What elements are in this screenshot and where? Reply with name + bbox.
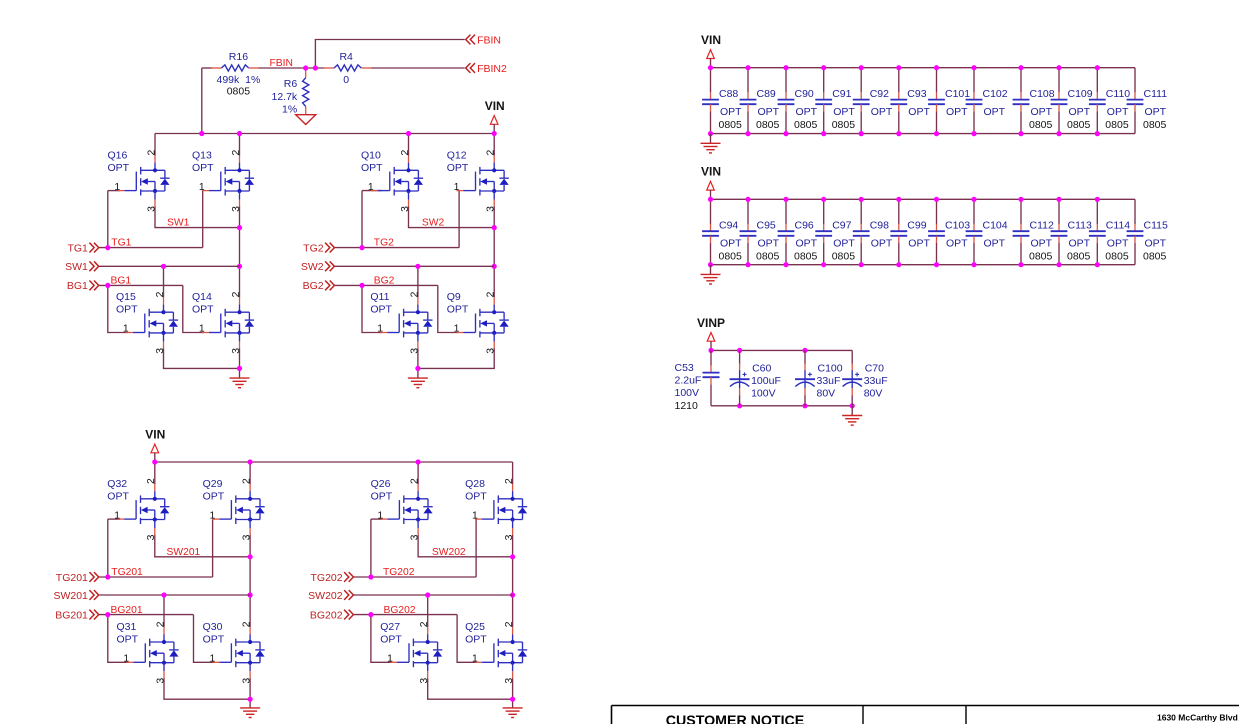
svg-text:BG201: BG201 [55,609,88,621]
capacitor C98 [853,220,893,250]
svg-text:OPT: OPT [117,634,139,646]
svg-text:1: 1 [368,182,374,193]
svg-text:TG2: TG2 [303,242,324,254]
power VIN [485,99,505,134]
wire [823,199,825,224]
wire [361,191,363,248]
wire [1020,199,1022,224]
power VINP [697,316,725,351]
transistor Q13 [192,149,254,212]
junction [1056,131,1061,136]
junction [859,65,864,70]
wire [785,68,787,93]
svg-text:OPT: OPT [984,238,1006,250]
svg-text:0805: 0805 [756,250,780,262]
wire [710,243,712,265]
svg-text:BG202: BG202 [310,609,343,621]
svg-text:SW202: SW202 [432,547,466,558]
ground [701,274,721,284]
power VIN [701,33,721,68]
junction [105,612,110,617]
svg-text:OPT: OPT [1069,238,1091,250]
svg-text:3: 3 [146,206,157,212]
svg-text:1: 1 [210,654,216,665]
svg-text:FBIN: FBIN [270,58,293,69]
svg-text:C113: C113 [1068,220,1092,232]
capacitor C97 [815,220,855,263]
junction [850,403,855,408]
wire [973,68,975,93]
wire [239,368,241,378]
svg-text:Q30: Q30 [203,621,223,633]
svg-text:3: 3 [231,206,242,212]
wire cap bank bottom rail [711,133,1136,135]
svg-text:80V: 80V [864,387,883,399]
junction [802,403,807,408]
wire [428,678,513,699]
wire [1058,111,1060,133]
wire cap bank bottom rail [711,264,1136,266]
svg-text:C111: C111 [1144,88,1168,100]
svg-text:3: 3 [504,534,515,540]
svg-text:OPT: OPT [908,106,930,118]
svg-text:SW201: SW201 [167,547,201,558]
connector TG1 [67,242,98,254]
junction [859,131,864,136]
junction [425,592,430,597]
connector TG201 [56,572,99,584]
transistor Q15 [116,291,178,354]
wire [99,594,250,596]
junction [510,554,515,559]
junction [896,197,901,202]
svg-text:OPT: OPT [1145,238,1167,250]
svg-text:Q28: Q28 [465,478,485,490]
svg-text:OPT: OPT [1107,106,1129,118]
svg-text:OPT: OPT [1031,106,1053,118]
svg-text:TG1: TG1 [111,237,131,248]
svg-text:C70: C70 [865,363,884,375]
svg-text:2: 2 [419,621,430,627]
wire [860,243,862,265]
wire [164,678,250,699]
svg-text:3: 3 [146,534,157,540]
svg-text:OPT: OPT [371,490,393,502]
connector SW202 [308,590,353,602]
capacitor C94 [702,220,742,263]
svg-text:C110: C110 [1106,88,1130,100]
wire [417,348,419,368]
svg-text:Q15: Q15 [116,291,136,303]
wire [183,285,204,332]
wire [154,134,156,156]
svg-text:3: 3 [409,348,420,354]
transistor Q28 [465,478,527,541]
junction [1018,262,1023,267]
wire [493,206,495,297]
junction [237,131,242,136]
junction [368,612,373,617]
svg-text:2: 2 [504,478,515,484]
wire [249,462,251,484]
svg-text:OPT: OPT [465,634,487,646]
transistor Q16 [108,149,170,212]
svg-text:OPT: OPT [192,162,214,174]
svg-text:0805: 0805 [719,119,743,131]
wire [710,350,712,365]
wire [1134,199,1136,224]
junction [416,459,421,464]
capacitor C93 [890,88,930,118]
svg-text:0805: 0805 [227,86,251,98]
transistor Q32 [107,478,169,541]
wire [99,576,213,578]
svg-text:1: 1 [472,510,478,521]
svg-text:SW201: SW201 [53,590,88,602]
svg-text:1: 1 [387,654,393,665]
svg-text:2: 2 [242,621,253,627]
wire VIN rail [155,133,494,135]
junction [406,131,411,136]
transistor Q31 [117,621,179,684]
wire [710,265,712,275]
svg-text:SW1: SW1 [167,218,190,229]
wire [710,134,712,144]
capacitor C102 [966,88,1008,118]
capacitor C95 [740,220,780,263]
wire [512,699,514,708]
svg-text:1210: 1210 [675,400,699,412]
junction [859,197,864,202]
junction [896,131,901,136]
svg-text:OPT: OPT [833,106,855,118]
wire [239,134,241,156]
junction [359,283,364,288]
junction [199,131,204,136]
svg-text:2.2uF: 2.2uF [675,375,702,387]
transistor Q14 [192,291,254,354]
junction [896,65,901,70]
wire [163,595,165,627]
svg-text:C95: C95 [757,220,776,232]
svg-text:Q26: Q26 [371,478,391,490]
ground [503,708,523,718]
svg-text:1: 1 [199,182,205,193]
svg-text:OPT: OPT [796,106,818,118]
svg-text:3: 3 [242,678,253,684]
junction [745,262,750,267]
svg-text:OPT: OPT [192,304,214,316]
svg-text:OPT: OPT [1145,106,1167,118]
junction [934,65,939,70]
wire VINP top rail [711,349,852,351]
wire [362,190,382,192]
junction [971,262,976,267]
svg-text:OPT: OPT [908,238,930,250]
transistor Q12 [447,149,509,212]
wire [851,395,853,406]
wire [249,535,251,627]
title block [612,706,1239,724]
svg-text:2: 2 [486,291,497,297]
wire [747,68,749,93]
junction [971,65,976,70]
svg-text:OPT: OPT [203,634,225,646]
svg-text:C102: C102 [983,88,1008,100]
wire [1020,111,1022,133]
wire [334,247,459,249]
transistor Q11 [370,291,432,354]
svg-text:Q25: Q25 [465,621,485,633]
ground [408,378,428,388]
wire [155,206,240,227]
svg-text:VINP: VINP [697,316,725,330]
svg-text:C109: C109 [1068,88,1093,100]
wire [107,191,109,248]
svg-text:499k 1%: 499k 1% [217,74,261,86]
svg-text:C99: C99 [907,220,926,232]
svg-text:C98: C98 [870,220,889,232]
junction [783,65,788,70]
junction [248,697,253,702]
svg-text:C96: C96 [795,220,814,232]
junction [248,592,253,597]
svg-text:VIN: VIN [701,33,721,47]
wire [212,519,214,577]
wire [710,384,712,405]
svg-text:2: 2 [486,149,497,155]
junction [237,264,242,269]
ground [240,708,260,718]
svg-text:0805: 0805 [832,250,856,262]
svg-text:1: 1 [114,182,120,193]
svg-text:1: 1 [378,510,384,521]
resistor R4 [324,51,372,86]
svg-text:C94: C94 [719,220,738,232]
wire [1134,111,1136,133]
junction [1095,131,1100,136]
junction [737,403,742,408]
junction [237,366,242,371]
svg-text:Q12: Q12 [447,149,467,161]
svg-text:2: 2 [146,478,157,484]
wire [804,395,806,406]
svg-text:C53: C53 [675,362,694,374]
svg-text:R16: R16 [229,51,248,63]
svg-text:VIN: VIN [485,99,505,113]
svg-text:1: 1 [114,510,120,521]
svg-text:Q10: Q10 [361,149,381,161]
wire [973,111,975,133]
svg-text:0805: 0805 [719,250,743,262]
svg-text:0805: 0805 [794,119,818,131]
wire [239,348,241,368]
svg-text:1: 1 [454,182,460,193]
connector FBIN [466,34,501,46]
svg-text:OPT: OPT [107,490,129,502]
svg-text:OPT: OPT [361,162,383,174]
svg-text:BG201: BG201 [111,605,143,616]
capacitor C89 [740,88,780,131]
wire [1096,68,1098,93]
wire cap bank top rail [711,198,1136,200]
svg-text:Q31: Q31 [117,621,137,633]
svg-text:2: 2 [400,149,411,155]
wire [201,68,203,134]
wire [417,368,419,378]
connector TG2 [303,242,334,254]
svg-text:100V: 100V [751,387,776,399]
wire [973,243,975,265]
svg-text:OPT: OPT [1069,106,1091,118]
junction [708,262,713,267]
svg-text:SW1: SW1 [65,261,88,273]
wire [408,134,410,156]
svg-text:R6: R6 [284,78,298,90]
ground [842,416,862,426]
capacitor C96 [778,220,818,263]
ground [230,378,250,388]
svg-text:TG201: TG201 [56,572,88,584]
wire [438,285,458,332]
wire [163,266,165,297]
svg-text:3: 3 [155,678,166,684]
resistor R16 [211,51,260,98]
capacitor C70 [842,363,887,400]
wire [353,614,457,616]
wire [107,519,109,577]
svg-text:TG1: TG1 [67,242,88,254]
transistor Q29 [203,478,265,541]
junction [934,131,939,136]
svg-text:C91: C91 [832,88,851,100]
wire [823,68,825,93]
wire [851,350,853,364]
junction [896,262,901,267]
svg-text:C60: C60 [752,363,771,375]
wire [739,395,741,406]
svg-text:C108: C108 [1030,88,1055,100]
svg-text:1: 1 [377,324,383,335]
wire [417,462,419,484]
svg-text:C92: C92 [870,88,889,100]
wire [1096,199,1098,224]
wire [785,243,787,265]
svg-text:Q32: Q32 [107,478,127,490]
svg-text:TG201: TG201 [111,567,143,578]
junction [708,131,713,136]
svg-text:1%: 1% [282,103,297,115]
wire [747,199,749,224]
wire [898,68,900,93]
junction [105,245,110,250]
junction [248,459,253,464]
svg-text:C112: C112 [1030,220,1054,232]
wire [249,678,251,699]
svg-text:1: 1 [123,324,129,335]
junction [821,197,826,202]
wire [154,462,156,484]
svg-text:33uF: 33uF [864,375,888,387]
svg-text:OPT: OPT [758,238,780,250]
capacitor C103 [928,220,970,250]
wire [710,111,712,133]
connector BG2 [303,280,335,292]
wire [353,594,512,596]
svg-text:3: 3 [410,534,421,540]
wire [1058,68,1060,93]
svg-text:100V: 100V [675,387,700,399]
wire [1096,243,1098,265]
junction [359,245,364,250]
capacitor C91 [815,88,855,131]
wire [512,535,514,627]
junction [313,65,318,70]
svg-text:1: 1 [454,324,460,335]
svg-text:C101: C101 [945,88,970,100]
svg-text:2: 2 [155,621,166,627]
wire [108,285,128,332]
svg-text:SW202: SW202 [308,590,343,602]
svg-text:1: 1 [123,654,129,665]
transistor Q10 [361,149,423,212]
svg-text:FBIN: FBIN [477,34,501,46]
junction [415,366,420,371]
junction [161,264,166,269]
wire [457,615,476,663]
junction [1056,262,1061,267]
transistor Q30 [203,621,265,684]
wire [860,199,862,224]
wire [108,615,128,663]
transistor Q26 [371,478,433,541]
svg-text:Q27: Q27 [380,621,400,633]
svg-text:Q9: Q9 [447,291,461,303]
junction [510,592,515,597]
svg-text:Q14: Q14 [192,291,212,303]
junction [415,264,420,269]
ground [701,143,721,153]
svg-text:0: 0 [343,74,349,86]
wire [493,134,495,156]
capacitor C101 [928,88,970,118]
svg-text:1: 1 [472,654,478,665]
wire [258,67,324,69]
wire [936,68,938,93]
connector SW2 [301,261,335,273]
junction [1095,65,1100,70]
capacitor C104 [966,220,1008,250]
junction [1018,197,1023,202]
junction [783,197,788,202]
svg-text:TG202: TG202 [383,567,415,578]
svg-text:3: 3 [400,206,411,212]
svg-text:33uF: 33uF [817,375,841,387]
svg-text:C90: C90 [795,88,814,100]
svg-text:C103: C103 [945,220,970,232]
wire [194,615,215,663]
wire [747,111,749,133]
svg-text:Q16: Q16 [108,149,128,161]
svg-text:0805: 0805 [1067,250,1091,262]
wire [239,206,241,297]
wire [1096,111,1098,133]
wire [936,199,938,224]
junction [934,197,939,202]
wire [409,206,495,227]
svg-text:VIN: VIN [701,165,721,179]
svg-text:FBIN2: FBIN2 [477,63,507,75]
